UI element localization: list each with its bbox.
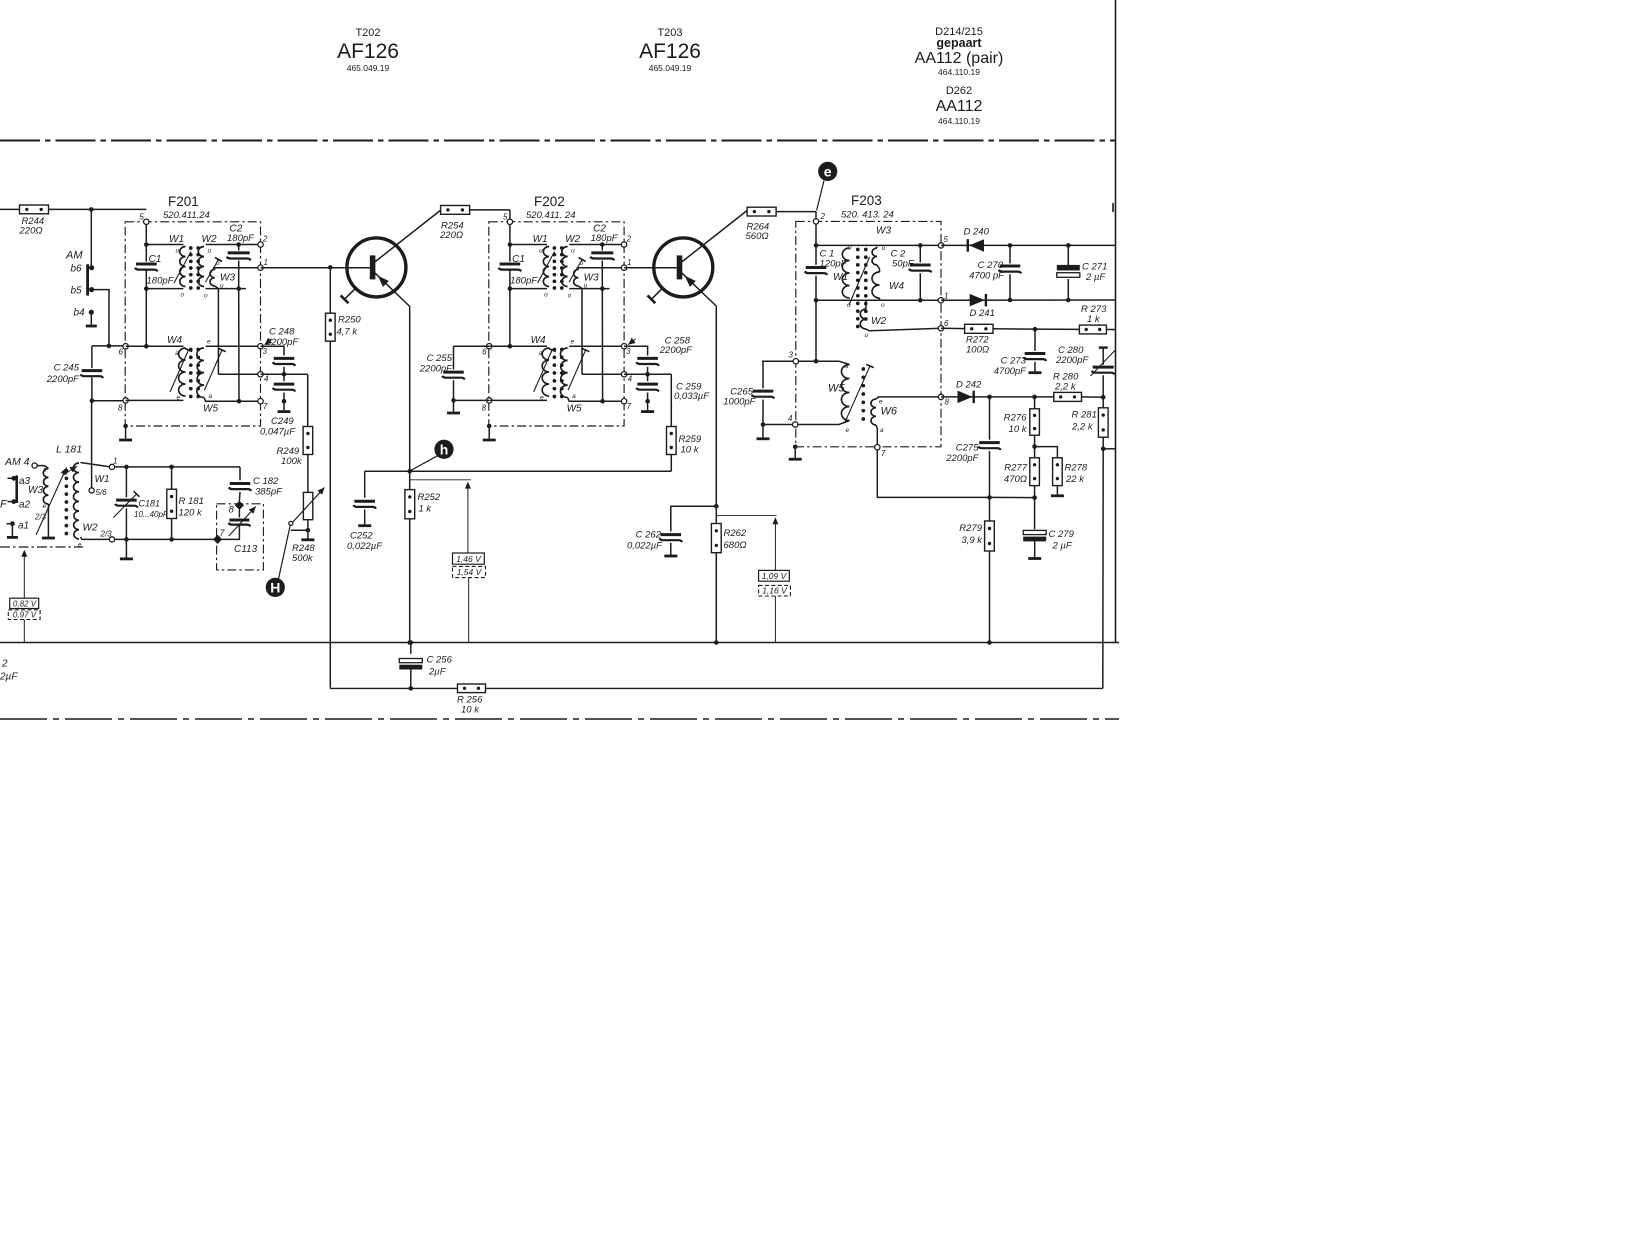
svg-text:520.411. 24: 520.411. 24 (526, 210, 575, 221)
svg-text:2200pF: 2200pF (419, 364, 453, 375)
svg-text:22 k: 22 k (1065, 474, 1085, 485)
svg-text:1 k: 1 k (1087, 314, 1101, 325)
svg-text:W6: W6 (881, 406, 898, 418)
svg-text:0,82 V: 0,82 V (13, 599, 37, 608)
svg-text:F201: F201 (168, 194, 199, 209)
svg-text:3,9 k: 3,9 k (961, 535, 983, 546)
svg-text:50pF: 50pF (892, 259, 915, 270)
svg-text:R278: R278 (1065, 463, 1088, 474)
svg-text:2: 2 (626, 235, 632, 244)
svg-text:7: 7 (263, 402, 268, 411)
svg-text:2200pF: 2200pF (265, 337, 299, 348)
svg-text:a2: a2 (19, 500, 31, 511)
svg-text:3: 3 (263, 347, 268, 356)
svg-text:a: a (572, 393, 576, 400)
svg-text:0,022µF: 0,022µF (627, 541, 663, 552)
svg-text:180pF: 180pF (510, 276, 538, 287)
svg-text:W1: W1 (533, 234, 548, 245)
svg-text:W4: W4 (531, 335, 546, 346)
svg-text:b4: b4 (74, 308, 86, 319)
svg-text:1: 1 (264, 258, 268, 267)
svg-text:1: 1 (113, 457, 117, 466)
svg-text:a: a (175, 350, 179, 357)
svg-text:4: 4 (788, 414, 793, 423)
svg-text:1,16 V: 1,16 V (762, 586, 788, 596)
svg-text:W4: W4 (167, 335, 182, 346)
svg-text:D262: D262 (946, 85, 972, 97)
svg-text:470Ω: 470Ω (1004, 474, 1027, 485)
svg-text:1,09 V: 1,09 V (762, 571, 788, 581)
svg-text:7: 7 (881, 449, 886, 458)
svg-text:680Ω: 680Ω (724, 540, 747, 551)
svg-text:4,7 k: 4,7 k (337, 327, 359, 338)
svg-text:AM 4: AM 4 (4, 456, 30, 468)
svg-text:W5: W5 (567, 404, 582, 415)
svg-text:W1: W1 (95, 474, 110, 485)
svg-text:a: a (209, 393, 213, 400)
svg-text:D 241: D 241 (970, 308, 995, 319)
svg-text:7: 7 (627, 402, 632, 411)
svg-text:D 240: D 240 (964, 227, 990, 238)
svg-text:2,2 k: 2,2 k (1071, 422, 1094, 433)
svg-text:R276: R276 (1004, 413, 1027, 424)
svg-text:C 255: C 255 (427, 353, 453, 364)
svg-text:465.049.19: 465.049.19 (347, 63, 390, 73)
svg-text:W1: W1 (169, 234, 184, 245)
svg-text:3: 3 (626, 347, 631, 356)
svg-text:C 182: C 182 (253, 476, 279, 487)
svg-text:e: e (43, 503, 47, 510)
svg-text:R259: R259 (679, 434, 702, 445)
svg-text:e: e (540, 395, 544, 402)
svg-text:2,2 k: 2,2 k (1054, 382, 1077, 393)
svg-text:W3: W3 (28, 485, 43, 496)
svg-text:o: o (181, 292, 185, 299)
svg-text:2 µF: 2 µF (1052, 541, 1073, 552)
svg-text:520. 413. 24: 520. 413. 24 (841, 210, 894, 221)
svg-text:C 262: C 262 (636, 530, 662, 541)
svg-text:F203: F203 (851, 193, 882, 208)
svg-text:180pF: 180pF (147, 276, 175, 287)
svg-text:AF126: AF126 (337, 40, 399, 63)
svg-text:T203: T203 (657, 27, 682, 39)
svg-text:10 k: 10 k (681, 445, 700, 456)
svg-text:10...40pF: 10...40pF (134, 510, 169, 519)
svg-text:o: o (580, 260, 584, 267)
svg-text:e: e (824, 163, 832, 179)
svg-text:520.411.24: 520.411.24 (163, 210, 210, 221)
svg-text:W4: W4 (889, 281, 904, 292)
svg-text:C113: C113 (234, 544, 258, 555)
svg-text:C 248: C 248 (269, 327, 295, 338)
svg-text:a: a (845, 363, 849, 370)
svg-text:a: a (880, 427, 884, 434)
svg-text:W2: W2 (565, 234, 580, 245)
svg-text:W5: W5 (203, 404, 218, 415)
svg-text:464.110.19: 464.110.19 (938, 116, 980, 126)
svg-text:o: o (204, 293, 208, 300)
svg-text:W2: W2 (202, 234, 217, 245)
svg-text:2: 2 (820, 212, 826, 221)
svg-text:o: o (216, 260, 220, 267)
svg-text:4: 4 (264, 375, 269, 384)
svg-text:C1: C1 (149, 254, 162, 265)
svg-text:D 242: D 242 (956, 380, 982, 391)
svg-text:a: a (539, 350, 543, 357)
svg-text:u: u (882, 245, 886, 252)
svg-text:2 µF: 2 µF (1085, 272, 1106, 283)
svg-text:e: e (571, 339, 575, 346)
svg-text:W1: W1 (833, 272, 848, 283)
svg-text:2: 2 (1, 659, 8, 670)
svg-text:4700pF: 4700pF (994, 366, 1027, 377)
svg-text:F202: F202 (534, 194, 565, 209)
svg-text:e: e (846, 427, 850, 434)
svg-text:2/3: 2/3 (34, 513, 47, 522)
svg-text:o: o (881, 302, 885, 309)
svg-text:0,033µF: 0,033µF (674, 391, 710, 402)
svg-text:W5: W5 (828, 383, 845, 395)
svg-text:AF126: AF126 (639, 40, 701, 63)
svg-text:R252: R252 (418, 492, 441, 503)
svg-text:u: u (571, 248, 575, 255)
svg-text:gepaart: gepaart (936, 36, 982, 50)
svg-text:C 273: C 273 (1001, 356, 1027, 367)
svg-text:100Ω: 100Ω (966, 345, 989, 356)
svg-text:0,97 V: 0,97 V (13, 611, 37, 620)
svg-text:180pF: 180pF (227, 233, 255, 244)
svg-text:2/3: 2/3 (100, 530, 113, 539)
svg-text:1000pF: 1000pF (723, 397, 756, 408)
svg-text:5: 5 (139, 213, 144, 222)
svg-text:C249: C249 (271, 416, 294, 427)
svg-text:464.110.19: 464.110.19 (938, 67, 980, 77)
svg-text:C252: C252 (350, 531, 373, 542)
svg-text:120 k: 120 k (179, 508, 203, 519)
svg-text:H: H (270, 579, 280, 595)
svg-text:560Ω: 560Ω (746, 231, 769, 242)
svg-text:e: e (207, 339, 211, 346)
svg-text:u: u (220, 283, 224, 290)
svg-text:2200pF: 2200pF (1055, 355, 1089, 366)
svg-text:AA112 (pair): AA112 (pair) (915, 50, 1004, 67)
svg-text:e: e (177, 395, 181, 402)
svg-text:o: o (568, 293, 572, 300)
svg-text:C275: C275 (956, 443, 979, 454)
svg-text:2: 2 (262, 235, 268, 244)
svg-text:R250: R250 (338, 315, 361, 326)
svg-text:4700 pF: 4700 pF (969, 271, 1005, 282)
svg-text:o: o (544, 292, 548, 299)
svg-text:8: 8 (229, 505, 235, 516)
svg-text:T202: T202 (355, 27, 380, 39)
svg-text:8: 8 (945, 398, 950, 407)
svg-text:1 k: 1 k (419, 504, 433, 515)
svg-text:u: u (539, 248, 543, 255)
svg-text:3: 3 (789, 351, 794, 360)
svg-text:o: o (847, 302, 851, 309)
svg-text:220Ω: 220Ω (439, 230, 463, 241)
svg-text:385pF: 385pF (255, 487, 283, 498)
svg-text:10 k: 10 k (461, 705, 480, 716)
svg-text:8: 8 (482, 404, 487, 413)
svg-text:C 270: C 270 (978, 260, 1004, 271)
svg-text:4: 4 (628, 375, 633, 384)
svg-text:8: 8 (118, 404, 123, 413)
svg-text:2200pF: 2200pF (945, 453, 979, 464)
svg-text:AA112: AA112 (936, 98, 983, 115)
svg-text:b5: b5 (71, 286, 83, 297)
svg-text:a: a (43, 467, 47, 474)
svg-text:6: 6 (482, 348, 487, 357)
svg-text:220Ω: 220Ω (19, 226, 43, 237)
svg-text:W3: W3 (876, 226, 891, 237)
svg-text:1: 1 (627, 258, 631, 267)
svg-text:2200pF: 2200pF (659, 345, 693, 356)
svg-text:b6: b6 (71, 264, 83, 275)
svg-text:10 k: 10 k (1009, 424, 1028, 435)
svg-text:5/6: 5/6 (96, 488, 108, 497)
svg-text:u: u (865, 332, 869, 339)
svg-text:0,022µF: 0,022µF (347, 541, 383, 552)
svg-text:100k: 100k (281, 456, 303, 467)
svg-text:R279: R279 (959, 523, 982, 534)
svg-text:1,46 V: 1,46 V (456, 554, 482, 564)
svg-text:2µF: 2µF (0, 672, 18, 683)
svg-text:C 279: C 279 (1049, 529, 1075, 540)
svg-text:1,54 V: 1,54 V (457, 567, 483, 577)
svg-text:6: 6 (944, 319, 949, 328)
svg-text:C181: C181 (139, 499, 161, 509)
svg-text:R262: R262 (724, 528, 747, 539)
svg-text:C 271: C 271 (1082, 262, 1107, 273)
svg-text:C 256: C 256 (427, 655, 453, 666)
svg-text:e: e (879, 399, 883, 406)
svg-text:W2: W2 (871, 316, 886, 327)
svg-text:W2: W2 (83, 523, 98, 534)
svg-text:465.049.19: 465.049.19 (649, 63, 692, 73)
svg-text:6: 6 (119, 348, 124, 357)
svg-text:a1: a1 (18, 521, 29, 532)
svg-text:a3: a3 (19, 476, 31, 487)
svg-text:2µF: 2µF (428, 667, 447, 678)
svg-text:500k: 500k (292, 553, 314, 564)
svg-text:5: 5 (944, 235, 949, 244)
svg-text:u: u (848, 245, 852, 252)
svg-text:u: u (176, 248, 180, 255)
svg-text:h: h (440, 441, 449, 457)
svg-text:R 181: R 181 (179, 496, 204, 507)
svg-text:L 181: L 181 (56, 444, 82, 456)
svg-text:2200pF: 2200pF (46, 374, 80, 385)
svg-text:C 245: C 245 (54, 363, 80, 374)
svg-text:5: 5 (503, 213, 508, 222)
svg-text:120pF: 120pF (820, 259, 848, 270)
svg-text:R 281: R 281 (1072, 410, 1097, 421)
svg-text:u: u (584, 283, 588, 290)
svg-text:180pF: 180pF (591, 233, 619, 244)
svg-text:C1: C1 (512, 254, 525, 265)
svg-text:R277: R277 (1004, 463, 1027, 474)
svg-text:0,047µF: 0,047µF (260, 427, 296, 438)
svg-text:AM: AM (65, 250, 83, 262)
svg-text:u: u (208, 248, 212, 255)
svg-text:1: 1 (944, 292, 948, 301)
